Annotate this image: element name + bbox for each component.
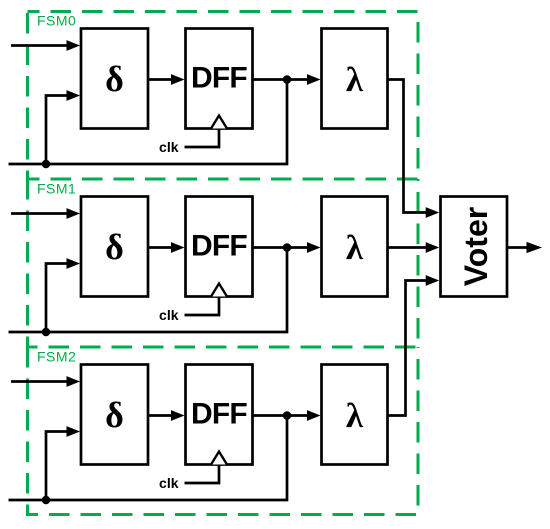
svg-text:clk: clk <box>159 475 179 491</box>
svg-text:δ: δ <box>105 395 124 435</box>
svg-text:clk: clk <box>159 307 179 323</box>
svg-text:Voter: Voter <box>458 207 494 286</box>
svg-text:FSM1: FSM1 <box>37 181 76 197</box>
svg-text:FSM2: FSM2 <box>37 349 76 365</box>
svg-text:DFF: DFF <box>191 398 247 431</box>
svg-text:clk: clk <box>159 139 179 155</box>
svg-text:DFF: DFF <box>191 62 247 95</box>
svg-text:δ: δ <box>105 59 124 99</box>
svg-text:λ: λ <box>346 60 364 99</box>
svg-text:FSM0: FSM0 <box>37 13 76 29</box>
svg-text:DFF: DFF <box>191 230 247 263</box>
svg-text:λ: λ <box>346 396 364 435</box>
svg-text:λ: λ <box>346 228 364 267</box>
svg-text:δ: δ <box>105 227 124 267</box>
